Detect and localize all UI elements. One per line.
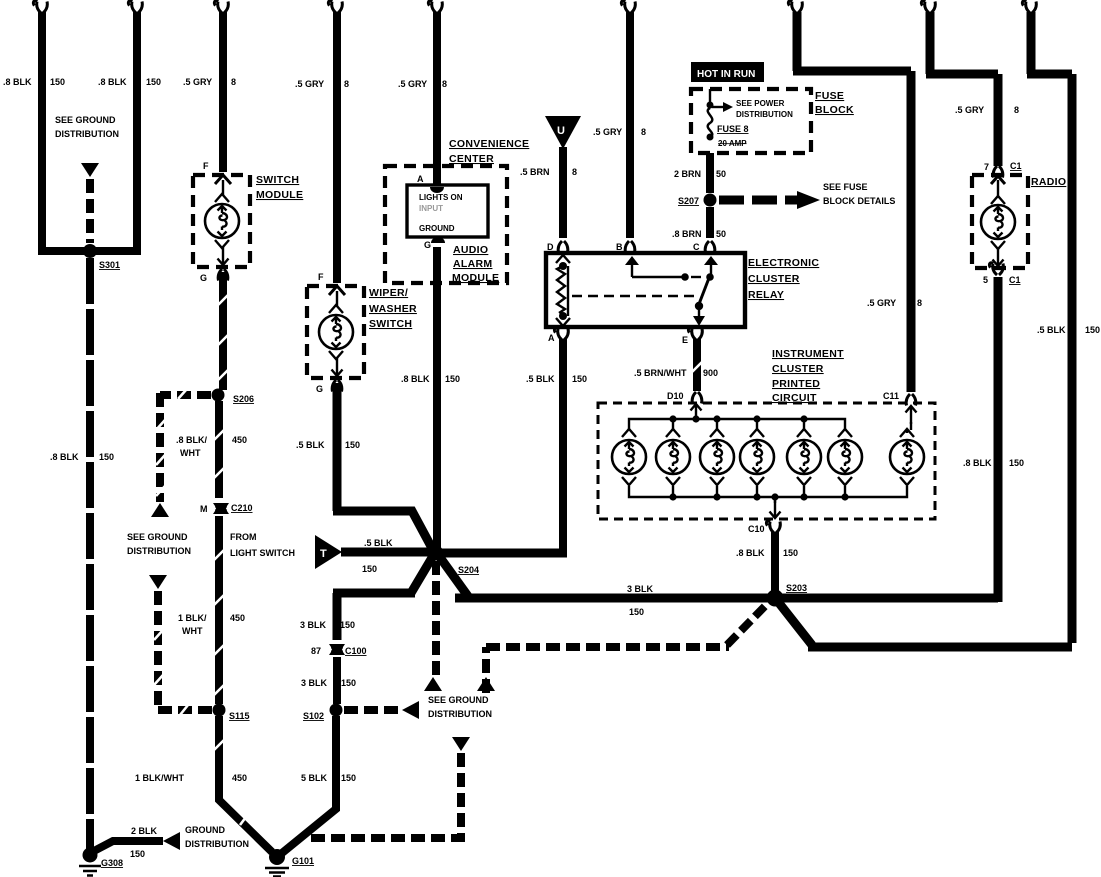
fuse block box: [691, 89, 811, 153]
splice S207: [704, 194, 717, 207]
wire: relay A down to S204 line (.5 BLK 150): [559, 339, 567, 553]
svg-text:8: 8: [572, 167, 577, 177]
svg-text:SWITCH: SWITCH: [256, 174, 299, 186]
arrow to ground distribution (left-pointing, S102): [402, 701, 419, 719]
svg-text:.5 BLK: .5 BLK: [526, 374, 555, 384]
svg-text:G: G: [316, 384, 323, 394]
wire: S301 down to G308 (.8 BLK 150): [86, 258, 94, 851]
svg-text:.5 GRY: .5 GRY: [295, 79, 324, 89]
wire: S204 right to relay pin A wire: [442, 549, 567, 558]
svg-text:.5 BRN: .5 BRN: [520, 167, 550, 177]
wire: wiper G to S204 (.5 BLK 150): [332, 380, 433, 550]
svg-text:150: 150: [340, 620, 355, 630]
svg-text:SEE GROUND: SEE GROUND: [428, 695, 489, 705]
arrow see power distribution: [712, 102, 733, 112]
svg-text:.5 BLK: .5 BLK: [364, 538, 393, 548]
wire: switch module G to S206 (.8 BLK/WHT 450): [218, 269, 228, 390]
svg-text:.8 BLK: .8 BLK: [50, 452, 79, 462]
svg-text:T: T: [320, 548, 327, 560]
wire: dashed arrow to fuse block details: [719, 191, 820, 209]
connector bump G: [431, 237, 445, 243]
instrument cluster box: [598, 403, 935, 519]
svg-text:.8 BLK: .8 BLK: [736, 548, 765, 558]
svg-text:CONVENIENCE: CONVENIENCE: [449, 138, 529, 150]
svg-text:50: 50: [716, 229, 726, 239]
wire: dashed from arrow to S115: [154, 591, 212, 715]
svg-text:LIGHT SWITCH: LIGHT SWITCH: [230, 548, 295, 558]
svg-text:A: A: [548, 333, 555, 343]
svg-text:5 BLK: 5 BLK: [301, 773, 328, 783]
svg-text:G308: G308: [101, 858, 123, 868]
svg-text:3 BLK: 3 BLK: [627, 584, 654, 594]
relay contact from B: [625, 256, 701, 281]
wire: audio alarm G to S204 (.8 BLK 150): [433, 247, 441, 548]
svg-text:MODULE: MODULE: [452, 272, 499, 284]
wire: dashed ground branch from S206: [156, 390, 211, 502]
svg-text:150: 150: [146, 77, 161, 87]
relay contact from C and blade: [693, 256, 718, 326]
svg-text:LIGHTS ON: LIGHTS ON: [419, 193, 463, 202]
wire: fuse block to S207 (2 BRN 50): [706, 153, 714, 193]
svg-text:G: G: [200, 273, 207, 283]
wire: C10 to S203 (.8 BLK 150): [771, 532, 779, 592]
label HOT IN RUN: [691, 62, 764, 82]
arrow to ground distribution (up triangle): [151, 503, 169, 517]
svg-text:150: 150: [341, 678, 356, 688]
switch module internal element: [205, 175, 239, 265]
svg-text:CLUSTER: CLUSTER: [748, 273, 800, 285]
svg-text:C10: C10: [748, 524, 765, 534]
relay coil (pin D to A): [556, 255, 570, 326]
svg-text:.5 GRY: .5 GRY: [955, 105, 984, 115]
connector bump A: [430, 187, 444, 193]
wire: convenience center feed (.5 GRY 8): [428, 1, 442, 185]
svg-text:FROM: FROM: [230, 532, 257, 542]
arrow from ground distribution (down triangle): [149, 575, 167, 589]
wire: relay pin B feed (.5 GRY 8): [621, 1, 635, 238]
connector C100: [329, 644, 345, 655]
svg-text:.8 BLK: .8 BLK: [3, 77, 32, 87]
svg-text:S207: S207: [678, 196, 699, 206]
arrow to ground distribution (left-pointing): [163, 832, 180, 850]
svg-text:WHT: WHT: [182, 626, 203, 636]
cluster bottom bus: [629, 486, 907, 497]
svg-text:WASHER: WASHER: [369, 303, 417, 315]
svg-text:ALARM: ALARM: [453, 258, 492, 270]
svg-text:ELECTRONIC: ELECTRONIC: [748, 257, 819, 269]
wire: dashed from arrow down to G101: [305, 753, 465, 838]
svg-text:INSTRUMENT: INSTRUMENT: [772, 348, 844, 360]
svg-text:DISTRIBUTION: DISTRIBUTION: [185, 839, 249, 849]
svg-text:S203: S203: [786, 583, 807, 593]
svg-text:150: 150: [445, 374, 460, 384]
svg-text:150: 150: [1085, 325, 1100, 335]
svg-text:150: 150: [341, 773, 356, 783]
svg-text:.8 BLK/: .8 BLK/: [176, 435, 208, 445]
wire: top feed far right (.5 BLK 150): [1022, 1, 1072, 643]
convenience center box: [385, 166, 507, 283]
wire: switch module feed (.5 GRY 8): [214, 1, 228, 172]
cluster C10 exit arrow: [770, 497, 781, 518]
wiper/washer switch box: [307, 286, 364, 378]
svg-text:S204: S204: [458, 565, 479, 575]
cluster D10 entry arrow: [691, 404, 702, 422]
wire: dashed diagonal S203 to branch: [727, 603, 768, 645]
radio box: [972, 175, 1028, 268]
svg-text:S115: S115: [229, 711, 250, 721]
top bus junction dots: [669, 415, 676, 422]
svg-text:8: 8: [917, 298, 922, 308]
wire: radio 5 down to S203 line (.8 BLK 150): [994, 277, 1003, 602]
svg-text:WIPER/: WIPER/: [369, 287, 408, 299]
svg-text:.8 BRN: .8 BRN: [672, 229, 702, 239]
svg-text:450: 450: [232, 435, 247, 445]
radio internal element: [981, 176, 1015, 266]
svg-text:C100: C100: [345, 646, 367, 656]
svg-text:DISTRIBUTION: DISTRIBUTION: [127, 546, 191, 556]
wire: S206 to C210 (.8 BLK/WHT): [214, 401, 224, 498]
svg-text:C: C: [693, 242, 700, 252]
arrow to ground distribution (up triangle, S204): [424, 677, 442, 691]
svg-text:150: 150: [629, 607, 644, 617]
svg-text:.8 BLK: .8 BLK: [98, 77, 127, 87]
wire: S204 diagonal down-left and 3 BLK 150 to C100: [333, 556, 433, 640]
svg-text:G: G: [424, 240, 431, 250]
svg-text:2 BRN: 2 BRN: [674, 169, 701, 179]
wire: S102 to G101 (5 BLK 150): [282, 716, 336, 853]
svg-text:.8 BLK: .8 BLK: [401, 374, 430, 384]
wire: wiper/washer feed (.5 GRY 8): [328, 1, 342, 283]
wire: dashed from S102 to ground distribution: [344, 706, 402, 714]
svg-text:SEE POWER: SEE POWER: [736, 99, 785, 108]
wire: T to S204 (.5 BLK 150): [341, 548, 430, 557]
wire: left ground feed 2 (.8 BLK 150): [94, 1, 142, 251]
arrow to ground distribution (up triangle, S203 branch): [477, 677, 495, 691]
wire: top feed to C11 (.5 GRY 8): [788, 1, 911, 392]
svg-text:50: 50: [716, 169, 726, 179]
svg-text:8: 8: [1014, 105, 1019, 115]
svg-text:D: D: [547, 242, 554, 252]
svg-text:8: 8: [231, 77, 236, 87]
svg-text:450: 450: [232, 773, 247, 783]
svg-text:150: 150: [99, 452, 114, 462]
svg-text:150: 150: [1009, 458, 1024, 468]
splice S102: [330, 704, 343, 717]
svg-text:3 BLK: 3 BLK: [301, 678, 328, 688]
svg-text:5: 5: [983, 275, 988, 285]
svg-text:8: 8: [442, 79, 447, 89]
svg-text:HOT IN RUN: HOT IN RUN: [697, 69, 755, 80]
svg-text:RELAY: RELAY: [748, 289, 784, 301]
svg-text:S102: S102: [303, 711, 324, 721]
svg-text:1 BLK/: 1 BLK/: [178, 613, 207, 623]
svg-text:.5 BRN/WHT: .5 BRN/WHT: [634, 368, 687, 378]
svg-text:S301: S301: [99, 260, 120, 270]
svg-text:DISTRIBUTION: DISTRIBUTION: [736, 110, 793, 119]
svg-text:M: M: [200, 504, 208, 514]
svg-text:RADIO: RADIO: [1031, 176, 1066, 188]
svg-text:SEE GROUND: SEE GROUND: [55, 115, 116, 125]
bottom bus junction dots: [669, 493, 676, 500]
svg-text:BLOCK DETAILS: BLOCK DETAILS: [823, 196, 895, 206]
svg-text:INPUT: INPUT: [419, 204, 443, 213]
svg-text:.8 BLK: .8 BLK: [963, 458, 992, 468]
wire: S207 to relay pin C (.8 BRN 50): [706, 207, 714, 238]
electronic cluster relay box: [546, 253, 745, 327]
wire: S204 diagonal down-right to S203 line: [439, 556, 470, 599]
svg-text:SEE GROUND: SEE GROUND: [127, 532, 188, 542]
connector U: [545, 116, 581, 149]
svg-text:G101: G101: [292, 856, 314, 866]
splice S115: [213, 704, 226, 717]
svg-text:87: 87: [311, 646, 321, 656]
wire: top feed to radio pin 7 (.5 GRY 8): [921, 1, 998, 166]
svg-text:150: 150: [345, 440, 360, 450]
splice S301: [83, 244, 97, 258]
svg-text:S206: S206: [233, 394, 254, 404]
cluster top bus: [629, 419, 845, 430]
splice S204: [429, 546, 444, 561]
wire: left ground feed 1 (.8 BLK 150): [33, 1, 86, 251]
svg-text:8: 8: [344, 79, 349, 89]
switch module box: [193, 175, 250, 267]
wire: relay E to cluster D10 (.5 BRN/WHT 900): [692, 339, 702, 391]
arrow from ground distribution (down triangle, bottom): [452, 737, 470, 751]
svg-text:7: 7: [984, 162, 989, 172]
svg-text:A: A: [417, 174, 424, 184]
svg-text:900: 900: [703, 368, 718, 378]
svg-text:.5 GRY: .5 GRY: [867, 298, 896, 308]
svg-text:D10: D10: [667, 391, 684, 401]
svg-text:U: U: [557, 125, 565, 137]
svg-text:C1: C1: [1010, 161, 1022, 171]
svg-text:2 BLK: 2 BLK: [131, 826, 158, 836]
svg-text:CENTER: CENTER: [449, 153, 494, 165]
relay actuation dashed line: [572, 295, 697, 297]
svg-text:450: 450: [230, 613, 245, 623]
svg-text:.5 GRY: .5 GRY: [183, 77, 212, 87]
wire: U to relay pin D (.5 BRN 8): [559, 147, 567, 238]
ground G308: [83, 848, 98, 863]
wire: dashed to S301: [86, 179, 94, 243]
svg-text:150: 150: [50, 77, 65, 87]
svg-text:WHT: WHT: [180, 448, 201, 458]
svg-text:F: F: [318, 272, 324, 282]
fuse 8 element: [707, 89, 714, 141]
svg-text:8: 8: [641, 127, 646, 137]
wire: C210 to S115 (1 BLK/WHT 450): [214, 516, 224, 704]
svg-text:FUSE 8: FUSE 8: [717, 124, 749, 134]
svg-text:B: B: [616, 242, 623, 252]
svg-text:150: 150: [783, 548, 798, 558]
svg-text:DISTRIBUTION: DISTRIBUTION: [428, 709, 492, 719]
ground G101: [269, 849, 285, 865]
svg-text:SWITCH: SWITCH: [369, 318, 412, 330]
svg-text:150: 150: [130, 849, 145, 859]
svg-text:CLUSTER: CLUSTER: [772, 363, 824, 375]
wire: S115 to G101 (1 BLK/WHT 450): [214, 716, 272, 852]
splice S203: [767, 590, 784, 607]
splice S206: [212, 389, 225, 402]
svg-text:1 BLK/WHT: 1 BLK/WHT: [135, 773, 184, 783]
arrow from ground distribution (down triangle): [81, 163, 99, 177]
cluster C11 entry arrow: [906, 406, 917, 430]
wiper switch internal element: [319, 286, 353, 376]
svg-text:.5 BLK: .5 BLK: [296, 440, 325, 450]
svg-text:MODULE: MODULE: [256, 189, 303, 201]
svg-text:FUSE: FUSE: [815, 90, 844, 102]
wire: C100 to S102 (3 BLK 150): [333, 657, 341, 704]
wire: S203 diagonal down-right to far right riser: [779, 603, 1072, 647]
svg-text:F: F: [203, 161, 209, 171]
svg-text:150: 150: [572, 374, 587, 384]
svg-text:20 AMP: 20 AMP: [718, 139, 747, 148]
wire: dashed from S204 down to ground arrow: [432, 561, 440, 675]
svg-text:E: E: [682, 335, 688, 345]
svg-text:DISTRIBUTION: DISTRIBUTION: [55, 129, 119, 139]
svg-text:PRINTED: PRINTED: [772, 378, 820, 390]
svg-text:3 BLK: 3 BLK: [300, 620, 327, 630]
audio alarm module inner box: [407, 185, 488, 237]
svg-text:GROUND: GROUND: [419, 224, 455, 233]
svg-text:.5 GRY: .5 GRY: [398, 79, 427, 89]
svg-text:SEE FUSE: SEE FUSE: [823, 182, 868, 192]
svg-text:C11: C11: [883, 391, 899, 401]
svg-text:C1: C1: [1009, 275, 1021, 285]
connector T (from light switch): [315, 535, 342, 569]
wire: G308 to ground distribution (2 BLK 150): [92, 841, 163, 852]
svg-text:BLOCK: BLOCK: [815, 104, 854, 116]
wire: dashed corner from S203 branch: [486, 647, 729, 693]
svg-text:C210: C210: [231, 503, 253, 513]
svg-text:150: 150: [362, 564, 377, 574]
wire: S203 horizontal (3 BLK 150): [455, 594, 998, 603]
connector C210: [213, 503, 229, 514]
svg-text:GROUND: GROUND: [185, 825, 225, 835]
svg-text:.5 GRY: .5 GRY: [593, 127, 622, 137]
svg-text:AUDIO: AUDIO: [453, 244, 488, 256]
cluster lamps row: [612, 419, 924, 485]
svg-text:.5 BLK: .5 BLK: [1037, 325, 1066, 335]
